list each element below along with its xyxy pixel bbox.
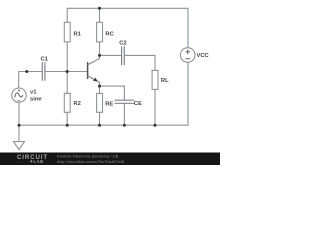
node dot collector junction — [98, 54, 101, 57]
wire R1 top lead — [66, 8, 68, 23]
wire bottom rail — [19, 124, 188, 126]
node dot top RC junction — [98, 7, 101, 10]
svg-text:RL: RL — [161, 78, 169, 84]
transistor Q1 — [88, 55, 100, 86]
wire emitter to CE — [100, 86, 125, 101]
wire RC leads — [99, 8, 101, 55]
wire VCC bottom lead — [187, 62, 189, 125]
resistor RL — [152, 70, 169, 89]
wire collector to C2 — [100, 54, 122, 56]
node dot R2 bottom — [66, 124, 69, 127]
svg-text:CE: CE — [134, 101, 142, 107]
wire C2 to RL corner — [124, 55, 155, 71]
ground — [14, 142, 25, 150]
capacitor C2 — [119, 41, 126, 66]
svg-text:sine: sine — [30, 96, 42, 102]
wire VCC top lead — [187, 8, 189, 48]
resistor R2 — [64, 93, 81, 112]
source VCC — [180, 48, 209, 63]
wire R1 bottom to base node — [66, 42, 68, 72]
capacitor C1 — [41, 56, 49, 80]
svg-text:✦LAB: ✦LAB — [30, 159, 44, 164]
svg-text:v1: v1 — [30, 90, 37, 96]
wire R2 leads — [66, 72, 68, 126]
svg-text:VCC: VCC — [197, 53, 210, 59]
svg-text:-·-·-: -·-·- — [17, 160, 23, 164]
source v1 (sine) — [12, 88, 43, 102]
footer bar — [0, 153, 220, 166]
capacitor CE — [115, 100, 142, 107]
node dot on C1 wire — [25, 70, 28, 73]
svg-text:R1: R1 — [74, 31, 82, 37]
node dot CE bottom — [123, 124, 126, 127]
node dot RE bottom — [98, 124, 101, 127]
resistor R1 — [64, 22, 81, 42]
svg-text:R2: R2 — [73, 101, 80, 107]
node dot emitter junction — [98, 85, 101, 88]
wire base left segment (v1 corner to C1) — [19, 71, 43, 88]
svg-text:RC: RC — [105, 31, 114, 37]
svg-text:http://circuitlab.com/c7bc7bu4: http://circuitlab.com/c7bc7bu487af8 — [57, 159, 125, 164]
wire top rail — [67, 7, 188, 9]
wire emitter to RE — [99, 86, 101, 125]
svg-text:C1: C1 — [41, 56, 49, 62]
wire C1 to transistor base — [45, 71, 88, 73]
node dot ground junction — [18, 124, 21, 127]
wire v1 bottom to ground — [18, 102, 20, 141]
wire CE bottom lead — [123, 103, 125, 125]
resistor RE — [97, 93, 114, 112]
wire RL bottom lead — [154, 89, 156, 125]
node dot base junction — [66, 70, 69, 73]
resistor RC — [97, 22, 115, 42]
svg-text:RE: RE — [105, 102, 113, 108]
svg-text:C2: C2 — [119, 41, 126, 47]
node dot RL bottom — [154, 124, 157, 127]
